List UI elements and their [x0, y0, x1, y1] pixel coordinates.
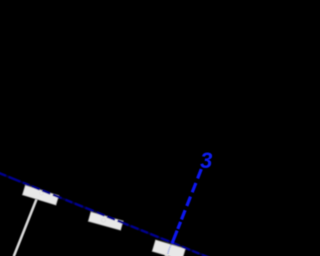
wire: navy dashed route line (hand-placed dashes along y=172.2+0.4024(x+2)): [0, 173, 210, 256]
bright blue dashed leader line (hand-placed dashes along x=201.3-0.392(y-169.1)): [172, 169, 201, 243]
white stub at bottom edge under rectangle 3: [165, 253, 169, 256]
faint dotted continuation of blue leader line inside rectangle 3: [167, 244, 172, 254]
faint mark in rectangle 1: [40, 192, 44, 196]
platform rectangle 2: [88, 212, 123, 230]
faint circle mark in rectangle 2: [102, 218, 106, 222]
wire: light gray perpendicular leg from platform 1: [14, 199, 37, 256]
platform rectangle 1: [22, 185, 58, 205]
svg-text:3: 3: [200, 148, 212, 173]
wire: navy dashed route line underlay haze: [0, 173, 210, 256]
platform rectangle 3: [152, 240, 185, 256]
